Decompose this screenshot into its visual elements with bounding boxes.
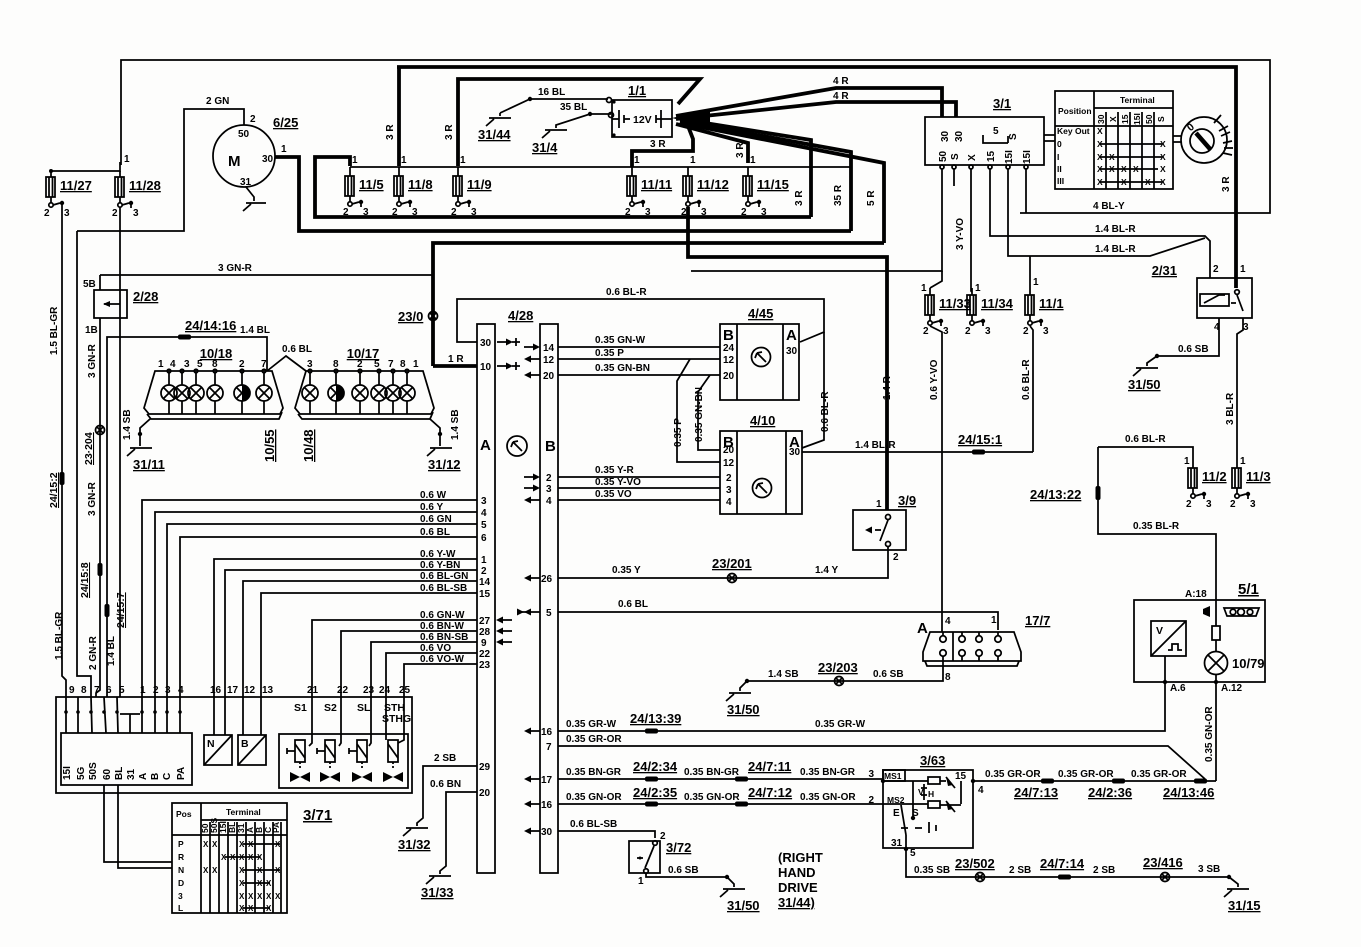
svg-text:N: N	[178, 865, 184, 875]
svg-text:0.6 Y: 0.6 Y	[420, 502, 443, 513]
wire 0.35 Y-R B2 to 4/10 B2	[524, 465, 720, 484]
svg-text:23/203: 23/203	[818, 660, 858, 675]
svg-text:3: 3	[546, 484, 552, 495]
svg-text:31/12: 31/12	[428, 457, 461, 472]
svg-text:V: V	[918, 787, 924, 797]
svg-text:1.4 BL: 1.4 BL	[106, 636, 117, 666]
lamps in 10/17	[302, 373, 415, 414]
svg-text:3: 3	[761, 207, 767, 218]
svg-text:0.35 GR-W: 0.35 GR-W	[566, 719, 617, 730]
svg-text:23/0: 23/0	[398, 309, 423, 324]
svg-text:2 GN: 2 GN	[206, 96, 229, 107]
svg-text:3: 3	[1206, 499, 1212, 510]
svg-text:0.35 BL-R: 0.35 BL-R	[1133, 521, 1180, 532]
svg-text:31/32: 31/32	[398, 837, 431, 852]
splice 24/15:8	[79, 562, 103, 598]
svg-text:3: 3	[471, 207, 477, 218]
svg-text:22: 22	[479, 649, 491, 660]
svg-text:0.6 SB: 0.6 SB	[873, 669, 904, 680]
ground 31/15	[1224, 875, 1261, 913]
wire 0.35 Y / 1.4 Y from B26 to 3/9 pin 2	[524, 547, 888, 585]
svg-text:2: 2	[1186, 499, 1192, 510]
wire 16 BL and ground 31/44	[478, 87, 612, 142]
splice 24/2:34	[633, 759, 678, 782]
svg-text:28: 28	[479, 627, 491, 638]
svg-text:3 R: 3 R	[385, 124, 396, 140]
svg-text:X: X	[1160, 152, 1166, 162]
svg-text:24/15:7: 24/15:7	[115, 592, 127, 628]
svg-text:4/45: 4/45	[748, 306, 773, 321]
svg-text:2/28: 2/28	[133, 289, 158, 304]
svg-text:D: D	[178, 878, 184, 888]
svg-text:A: A	[480, 437, 491, 454]
svg-text:1: 1	[413, 359, 419, 370]
svg-text:24/2:34: 24/2:34	[633, 759, 678, 774]
fuse 11/34	[965, 283, 1014, 337]
fuse 11/28	[112, 154, 161, 219]
wire 3 Y-VO pinX to 11/34	[955, 169, 972, 292]
svg-text:6: 6	[481, 533, 487, 544]
svg-text:1B: 1B	[85, 325, 98, 336]
svg-text:3/9: 3/9	[898, 493, 916, 508]
fuse 11/27	[44, 169, 92, 219]
wire 0.35 GR-W B16 row to 5/1 A6	[524, 682, 1165, 738]
svg-text:3 R: 3 R	[1221, 176, 1232, 192]
svg-text:0.35 P: 0.35 P	[595, 348, 624, 359]
svg-text:4 R: 4 R	[833, 76, 849, 87]
splice 23/416	[1143, 855, 1183, 882]
svg-text:11/9: 11/9	[467, 177, 492, 192]
svg-text:5G: 5G	[76, 766, 87, 780]
fuse 11/8	[392, 155, 433, 218]
wire 3 R battery to 11/15	[676, 124, 748, 163]
solenoid group box S1 S2 SL STH	[279, 702, 411, 788]
svg-text:0.35 GN-BN: 0.35 GN-BN	[595, 363, 650, 374]
splice 24/13:46	[1163, 779, 1214, 801]
svg-text:R: R	[178, 852, 184, 862]
svg-text:0.6 SB: 0.6 SB	[1178, 344, 1209, 355]
wire 35 R thick riser	[680, 121, 851, 231]
relay 2/31	[1152, 263, 1252, 333]
svg-text:7: 7	[546, 742, 552, 753]
pin 10 of bar A with arrow	[480, 362, 520, 373]
svg-text:I: I	[1057, 152, 1059, 162]
wire 0.6 SB 2/31 pin4 to ground 31/50	[1128, 318, 1219, 392]
svg-text:0.6 BL-R: 0.6 BL-R	[1021, 359, 1032, 400]
selector fan wire 0.6 Y-BN to A2	[225, 560, 487, 697]
svg-text:1.4 SB: 1.4 SB	[122, 409, 133, 440]
svg-text:1.4 Y: 1.4 Y	[815, 565, 838, 576]
svg-text:0.35 GR-W: 0.35 GR-W	[815, 719, 866, 730]
table 3/71	[172, 803, 332, 913]
svg-text:0.6 BL-SB: 0.6 BL-SB	[420, 583, 467, 594]
svg-text:1: 1	[1184, 456, 1190, 467]
svg-text:2: 2	[44, 208, 50, 219]
svg-text:0.35 GR-OR: 0.35 GR-OR	[985, 769, 1041, 780]
svg-text:4: 4	[726, 497, 732, 508]
svg-text:B: B	[723, 327, 734, 344]
svg-text:2: 2	[741, 207, 747, 218]
svg-text:3: 3	[943, 326, 949, 337]
wire thin pin-1 bus y167	[350, 166, 851, 168]
svg-text:0.6 GN: 0.6 GN	[420, 514, 452, 525]
svg-text:11/8: 11/8	[408, 177, 433, 192]
fuse 11/2	[1186, 468, 1227, 510]
svg-text:15: 15	[479, 589, 491, 600]
wire 3 R thick border top and right into 2/31 pin 1	[397, 67, 1236, 288]
svg-text:31: 31	[126, 768, 137, 780]
svg-text:31/4: 31/4	[532, 140, 558, 155]
svg-text:2: 2	[965, 326, 971, 337]
svg-text:30: 30	[480, 338, 492, 349]
svg-text:31/44): 31/44)	[778, 895, 815, 910]
svg-text:B: B	[150, 773, 161, 780]
svg-text:0.6 BL: 0.6 BL	[420, 527, 450, 538]
svg-text:MS1: MS1	[884, 771, 902, 781]
svg-text:16: 16	[541, 800, 553, 811]
selector inner terminal box	[61, 733, 192, 785]
svg-text:23·204: 23·204	[83, 432, 95, 465]
wire 0.35 SB 3/63 pin5 to bottom SB line	[906, 848, 1229, 877]
svg-text:23/502: 23/502	[955, 856, 995, 871]
svg-text:2: 2	[660, 831, 666, 842]
svg-text:11/12: 11/12	[697, 177, 729, 192]
svg-text:0.6 VO: 0.6 VO	[420, 643, 451, 654]
svg-text:24: 24	[379, 685, 391, 696]
wire 0.6 BN A20 row to ground 31/33	[421, 779, 491, 900]
battery fan wedge	[672, 109, 710, 128]
svg-text:2: 2	[357, 359, 363, 370]
wire 0.6 Y-VO from 11/33 down to 17/7 A4	[929, 326, 942, 632]
fuse 11/12	[681, 155, 729, 218]
svg-text:3: 3	[64, 208, 70, 219]
svg-text:9: 9	[69, 685, 75, 696]
svg-text:12: 12	[244, 685, 256, 696]
svg-text:X: X	[1108, 116, 1118, 122]
svg-text:30: 30	[541, 827, 553, 838]
svg-text:4: 4	[978, 785, 984, 796]
selector fan wire 0.6 W to A3	[142, 490, 487, 697]
svg-text:1: 1	[975, 283, 981, 294]
svg-text:E: E	[893, 808, 900, 819]
svg-text:1: 1	[750, 155, 756, 166]
svg-text:11/2: 11/2	[1202, 469, 1227, 484]
note right hand drive	[778, 850, 823, 910]
wire 4 BL-Y thin outer frame top/right	[121, 60, 1270, 213]
fuse 11/3	[1230, 468, 1271, 510]
splice 24/13:22	[1030, 486, 1101, 502]
connector 17/7	[917, 613, 1050, 683]
svg-text:X: X	[239, 892, 245, 901]
wire 3 R thick riser right	[680, 119, 811, 217]
wire 0.35 GR-OR B7 row diagonal to bottom line	[546, 734, 1205, 779]
svg-text:0.6 Y-BN: 0.6 Y-BN	[420, 560, 460, 571]
selector internal wires to terminals	[64, 697, 182, 733]
svg-text:31/44: 31/44	[478, 127, 511, 142]
svg-text:Terminal: Terminal	[226, 807, 261, 817]
module 5/1	[1134, 581, 1265, 694]
svg-text:30: 30	[789, 447, 801, 458]
svg-text:24/7:13: 24/7:13	[1014, 785, 1058, 800]
fuse 11/11	[625, 155, 672, 218]
svg-text:3 BL-R: 3 BL-R	[1225, 392, 1236, 425]
wire 3 R battery to 11/11	[632, 126, 693, 167]
svg-text:10: 10	[480, 362, 492, 373]
svg-text:0.6 BL-R: 0.6 BL-R	[606, 287, 647, 298]
svg-text:30: 30	[262, 154, 274, 165]
splice 24/13:39	[630, 711, 681, 734]
svg-text:0.6 BL: 0.6 BL	[282, 344, 312, 355]
svg-text:3 R: 3 R	[735, 142, 746, 158]
wire 0.35 P B12 to 4/45 B12	[524, 348, 720, 366]
svg-text:2: 2	[923, 326, 929, 337]
wire 0.6 BL jumper between clusters	[267, 344, 312, 371]
svg-text:3/1: 3/1	[993, 96, 1011, 111]
svg-text:14: 14	[543, 343, 555, 354]
svg-text:1 R: 1 R	[448, 354, 464, 365]
svg-text:0.35 GR-OR: 0.35 GR-OR	[1058, 769, 1114, 780]
terminal 31 T mark	[120, 714, 140, 733]
svg-text:3: 3	[1043, 326, 1049, 337]
svg-text:20: 20	[479, 788, 491, 799]
svg-text:23/201: 23/201	[712, 556, 752, 571]
svg-text:A: A	[138, 773, 149, 780]
svg-text:12V: 12V	[633, 114, 652, 126]
wire 3/1 pin50 down and branch y271	[691, 169, 954, 271]
selector fan wire 0.6 BN-W to A28	[341, 621, 512, 697]
svg-text:14: 14	[479, 577, 491, 588]
svg-text:1: 1	[460, 155, 466, 166]
svg-text:0.35 GR-OR: 0.35 GR-OR	[566, 734, 622, 745]
wire 2 GN from M top	[77, 96, 244, 231]
svg-text:0.6 BN-W: 0.6 BN-W	[420, 621, 464, 632]
svg-text:X: X	[275, 892, 281, 901]
svg-text:X: X	[1160, 164, 1166, 174]
wire 24/14:16 1.4 BL line	[106, 318, 270, 697]
svg-text:1.4 SB: 1.4 SB	[450, 409, 461, 440]
svg-text:16: 16	[210, 685, 222, 696]
splice 24/2:35	[633, 785, 677, 807]
wire 35 BL and ground 31/4	[532, 102, 614, 155]
gear selector switch assembly outer box	[56, 697, 412, 793]
svg-text:0.6 BL-R: 0.6 BL-R	[820, 391, 831, 432]
svg-text:PA: PA	[176, 767, 187, 780]
svg-text:3/72: 3/72	[666, 840, 691, 855]
svg-text:5: 5	[374, 359, 380, 370]
svg-text:X: X	[212, 840, 218, 849]
svg-text:V: V	[1156, 625, 1163, 637]
svg-text:3: 3	[985, 326, 991, 337]
svg-text:20: 20	[723, 371, 735, 382]
svg-text:B: B	[241, 738, 249, 750]
svg-text:HAND: HAND	[778, 865, 816, 880]
wire 1.4 BL-R pin15I to 2/31 pin2 second	[1008, 169, 1205, 256]
solenoid SL	[349, 697, 372, 782]
svg-text:24/15:2: 24/15:2	[48, 472, 60, 508]
ground below M pin 31	[243, 187, 266, 211]
svg-text:1: 1	[401, 155, 407, 166]
wire 1.4 SB / 0.6 SB ground 31/50 to 17/7 pin 8 via 23/203	[726, 666, 943, 717]
solenoid S1	[287, 697, 312, 782]
wire bus y217 thick with 11/5 feed	[315, 157, 811, 217]
svg-text:1.5 BL-GR: 1.5 BL-GR	[54, 611, 65, 660]
svg-text:24/15:8: 24/15:8	[79, 562, 91, 598]
svg-text:0.6 BL-R: 0.6 BL-R	[1125, 434, 1166, 445]
svg-text:50: 50	[238, 129, 250, 140]
svg-text:0.6 BL: 0.6 BL	[618, 599, 648, 610]
svg-text:16 BL: 16 BL	[538, 87, 565, 98]
wire 1.4 R thick from 11/12 pin2 down right to 3/9	[688, 207, 893, 510]
svg-text:26: 26	[541, 574, 553, 585]
splice 23/502	[955, 856, 995, 882]
svg-text:15I: 15I	[1022, 150, 1033, 164]
wire 0.6 BL-R from 11/34 area down	[1021, 326, 1033, 452]
svg-text:31/50: 31/50	[727, 702, 760, 717]
splice 23-204	[83, 426, 105, 466]
splice 23/201	[712, 556, 752, 583]
wire 0.35 GN-OR B18 row to 3/63 MS2	[524, 792, 883, 811]
svg-text:9: 9	[481, 638, 487, 649]
svg-text:0.35 VO: 0.35 VO	[595, 489, 632, 500]
connector 2/28	[83, 275, 158, 336]
svg-text:21: 21	[307, 685, 319, 696]
wire 0.35 VO B4 to 4/10 B4	[524, 489, 720, 507]
svg-text:2: 2	[1023, 326, 1029, 337]
svg-text:S: S	[1008, 133, 1019, 140]
svg-text:Terminal: Terminal	[1120, 95, 1155, 105]
svg-text:3/71: 3/71	[303, 807, 332, 824]
wire battery top bus y79 to 11/9	[458, 79, 700, 166]
svg-text:8: 8	[212, 359, 218, 370]
wire 0.35 GN-OR from 5/1 A12 down to 24/13:46	[1204, 682, 1216, 781]
svg-text:7: 7	[94, 685, 100, 696]
wire 4 R battery to 3/1 pin30a	[676, 76, 942, 117]
svg-text:31/11: 31/11	[133, 457, 165, 472]
svg-text:M: M	[228, 153, 241, 170]
wire 1.4 BL-R pin15 to 2/31 pin2	[990, 169, 1210, 278]
svg-text:8: 8	[81, 685, 87, 696]
svg-text:10/79: 10/79	[1232, 656, 1265, 671]
wire bus y243 thick 5R riser	[433, 123, 884, 366]
svg-text:1.5 BL-GR: 1.5 BL-GR	[49, 306, 60, 355]
svg-text:24/13:39: 24/13:39	[630, 711, 681, 726]
svg-text:2/31: 2/31	[1152, 263, 1177, 278]
connector 4/28 bar A	[477, 308, 533, 873]
wire 1 R thick into pin 10	[433, 354, 477, 366]
svg-text:1.4 R: 1.4 R	[882, 375, 893, 400]
svg-text:0.35 Y: 0.35 Y	[612, 565, 641, 576]
svg-text:20: 20	[543, 371, 555, 382]
svg-text:3: 3	[307, 359, 313, 370]
svg-text:N: N	[207, 738, 215, 750]
wire 0.6 BL-R from pin 30 up over to 4/45 A30	[457, 287, 824, 342]
svg-text:4: 4	[481, 508, 487, 519]
svg-text:X: X	[1160, 139, 1166, 149]
svg-text:Position: Position	[1058, 106, 1092, 116]
svg-text:2: 2	[153, 685, 159, 696]
svg-text:31/33: 31/33	[421, 885, 454, 900]
svg-text:0.6 BL-GN: 0.6 BL-GN	[420, 571, 468, 582]
svg-text:S: S	[950, 153, 961, 160]
svg-text:1.4 BL-R: 1.4 BL-R	[1095, 244, 1136, 255]
connector symbol circle between bars	[507, 436, 527, 456]
svg-text:2: 2	[868, 795, 874, 806]
svg-text:50: 50	[1144, 114, 1154, 124]
svg-text:10/48: 10/48	[301, 429, 316, 462]
svg-text:30: 30	[940, 130, 951, 142]
svg-text:0.35 BN-GR: 0.35 BN-GR	[684, 767, 740, 778]
svg-text:12: 12	[723, 355, 735, 366]
svg-text:0.6 Y-VO: 0.6 Y-VO	[929, 359, 940, 400]
svg-text:1: 1	[281, 144, 287, 155]
svg-text:X: X	[203, 840, 209, 849]
svg-text:7: 7	[388, 359, 394, 370]
solenoid valve B box	[238, 697, 266, 765]
wire 3R from top border to 11/8	[385, 66, 455, 166]
svg-text:5B: 5B	[83, 279, 96, 290]
relay 4/45	[720, 306, 799, 400]
svg-text:B: B	[545, 438, 556, 455]
svg-text:1: 1	[690, 155, 696, 166]
svg-text:3 GN-R: 3 GN-R	[87, 343, 98, 378]
svg-text:24/13:46: 24/13:46	[1163, 785, 1214, 800]
svg-text:0.6 Y-W: 0.6 Y-W	[420, 549, 456, 560]
svg-text:6: 6	[106, 685, 112, 696]
selector fan wire 0.6 BL to A6	[180, 527, 487, 697]
battery 1/1	[612, 83, 672, 137]
svg-text:1: 1	[638, 876, 644, 887]
wire from 11/28 pin2 down to selector pin 5	[119, 207, 121, 697]
svg-text:1: 1	[1240, 456, 1246, 467]
svg-text:24/13:22: 24/13:22	[1030, 487, 1081, 502]
wire 0.6 BL-R horizontal to 11/2	[1098, 434, 1246, 468]
module 3/63	[868, 753, 984, 851]
svg-text:S: S	[1156, 116, 1166, 122]
svg-text:X: X	[266, 892, 272, 901]
svg-text:0.35 BN-GR: 0.35 BN-GR	[566, 767, 622, 778]
svg-text:2 SB: 2 SB	[1093, 865, 1115, 876]
svg-text:17: 17	[227, 685, 239, 696]
svg-text:8: 8	[400, 359, 406, 370]
svg-text:31: 31	[240, 177, 252, 188]
splice 24/15:1	[958, 432, 1002, 455]
wire M pin30 thick to bus y231	[275, 157, 851, 231]
splice 24/7:14	[1040, 856, 1085, 880]
svg-text:24/2:35: 24/2:35	[633, 785, 677, 800]
svg-text:1.4 BL-R: 1.4 BL-R	[1095, 224, 1136, 235]
svg-text:X: X	[203, 866, 209, 875]
fuse 11/33	[921, 283, 971, 337]
svg-text:II: II	[1057, 164, 1062, 174]
svg-text:11/27: 11/27	[60, 178, 92, 193]
svg-text:5: 5	[481, 520, 487, 531]
svg-text:3 GN-R: 3 GN-R	[87, 481, 98, 516]
fuse 11/15	[741, 155, 789, 218]
selector fan wire 0.6 BN-SB to A9	[371, 632, 512, 697]
selector fan wire 0.6 BL-GN to A14	[243, 571, 491, 697]
svg-text:6/25: 6/25	[273, 115, 298, 130]
svg-text:2: 2	[343, 207, 349, 218]
svg-text:2: 2	[392, 207, 398, 218]
switch 3/72	[629, 831, 691, 887]
wire 0.6 BL-SB B30 row to 3/72	[524, 819, 655, 838]
relay 4/10	[720, 413, 802, 514]
svg-text:C: C	[162, 773, 173, 780]
svg-text:8: 8	[333, 359, 339, 370]
svg-text:0: 0	[1057, 139, 1062, 149]
svg-text:1.4 BL-R: 1.4 BL-R	[855, 440, 896, 451]
svg-text:X: X	[257, 892, 263, 901]
